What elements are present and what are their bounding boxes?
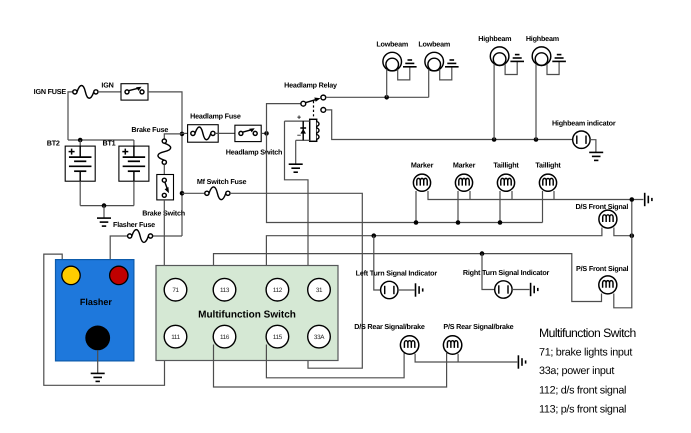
junction front signal riser / ground bus [630, 197, 635, 202]
switch Headlamp Switch [235, 125, 261, 141]
wire relay coil plus feed [285, 120, 310, 122]
wire headlamp switch node up to relay common [267, 104, 301, 134]
label Headlamp Fuse [190, 112, 241, 121]
lamp Marker at x=422 [413, 174, 430, 191]
svg-text:112; d/s front signal: 112; d/s front signal [539, 384, 626, 396]
wire brake fuse to brake switch [163, 164, 165, 174]
wire MF pin 116 to P/S rear signal [214, 345, 447, 388]
battery BT2 [65, 146, 95, 182]
label Right Turn Signal Indicator [463, 268, 550, 277]
label D/S Rear Signal/brake [354, 322, 425, 331]
fuse Headlamp Fuse [191, 127, 215, 140]
MF switch pin 33A [308, 325, 331, 348]
svg-text:113: 113 [220, 287, 230, 294]
wire brake fuse tap [164, 134, 182, 139]
wire rear signal ground bus [415, 354, 517, 362]
svg-text:71: 71 [172, 287, 179, 294]
legend text: 113; p/s front signal [539, 404, 626, 416]
svg-text:Highbeam indicator: Highbeam indicator [552, 118, 616, 127]
flasher module body [56, 260, 134, 361]
svg-text:112: 112 [273, 287, 283, 294]
svg-text:+: + [297, 115, 301, 122]
junction BT2 positive tap [78, 138, 83, 143]
label Taillight [535, 161, 561, 170]
lamp Highbeam 1 [490, 47, 517, 140]
legend text: Multifunction Switch [539, 326, 636, 340]
lamp Lowbeam 1 [383, 52, 410, 97]
wire MF pin 112 to D/S front signal [266, 228, 602, 282]
wire left turn indicator feed [374, 236, 381, 290]
label Flasher Fuse [113, 220, 155, 229]
svg-text:Taillight: Taillight [535, 161, 561, 170]
wire lamp left lead x=464 [457, 191, 459, 223]
wire headlamp switch node down to taillight bus [267, 133, 543, 222]
junction highbeam 2 tap [534, 137, 539, 142]
wire highbeam indicator to ground [590, 140, 596, 153]
wire flasher fuse to flasher red terminal [110, 236, 127, 266]
ground battery [97, 218, 111, 226]
svg-text:71; brake lights input: 71; brake lights input [539, 347, 632, 359]
ground relay coil [289, 164, 303, 172]
lamp D/S Front Signal [599, 210, 617, 228]
svg-text:−: − [297, 132, 301, 139]
wire BT2 negative lead [79, 181, 81, 205]
svg-text:IGN: IGN [101, 80, 113, 89]
box Headlamp Fuse [188, 125, 219, 143]
label BT1 [103, 139, 116, 148]
wire marker/taillight ground bus [428, 191, 643, 200]
svg-text:Headlamp Relay: Headlamp Relay [284, 80, 337, 89]
wire BT1 positive lead [133, 140, 135, 146]
lamp Left Turn Signal Indicator [381, 281, 398, 298]
switch IGN [121, 84, 148, 100]
label Lowbeam 1 [376, 40, 408, 49]
fuse Flasher Fuse [128, 230, 153, 243]
label Flasher [80, 297, 113, 307]
svg-text:Headlamp Switch: Headlamp Switch [226, 147, 283, 156]
junction taillight feed x=506 [498, 220, 503, 225]
svg-text:Mf Switch Fuse: Mf Switch Fuse [197, 177, 247, 186]
wire battery negative bus [80, 205, 134, 207]
wire lamp left lead x=506 [499, 191, 501, 223]
label Headlamp Relay [284, 80, 337, 89]
junction taillight feed x=464 [456, 220, 461, 225]
svg-text:IGN FUSE: IGN FUSE [34, 87, 67, 96]
lamp Lowbeam 2 ground [445, 60, 459, 67]
wire relay actuation dashed link [313, 101, 315, 119]
svg-text:Marker: Marker [453, 161, 476, 170]
svg-text:Lowbeam: Lowbeam [418, 40, 450, 49]
svg-text:BT2: BT2 [47, 139, 60, 148]
svg-text:Right Turn Signal Indicator: Right Turn Signal Indicator [463, 268, 550, 277]
wire MF pin 113 to P/S front signal [214, 254, 602, 302]
lamp Taillight at x=548 [539, 174, 556, 191]
ground rear signal bus [518, 355, 525, 368]
MF switch pin 115 [266, 325, 289, 348]
wire headlamp switch output [261, 132, 266, 134]
svg-text:Brake Fuse: Brake Fuse [131, 125, 168, 134]
ground flasher [91, 373, 105, 381]
wire lowbeam bus from relay top contact [326, 96, 429, 98]
junction left turn indicator tap [372, 233, 377, 238]
fuse IGN FUSE [73, 86, 98, 99]
label relay plus [297, 115, 301, 122]
label Brake Fuse [131, 125, 168, 134]
wire front signal ground riser [614, 200, 632, 308]
label Marker [411, 161, 434, 170]
wire BT1 negative lead [133, 181, 135, 205]
battery BT1 [119, 146, 149, 182]
junction power rail / brake fuse tap [180, 132, 185, 137]
svg-text:Marker: Marker [411, 161, 434, 170]
svg-text:31: 31 [316, 287, 323, 294]
wire flasher ground lead [97, 350, 99, 373]
lamp Highbeam 1 ground [510, 55, 524, 62]
ground marker/taillight bus [645, 193, 652, 206]
lamp Marker at x=464 [455, 174, 472, 191]
junction battery negative / ground tap [102, 203, 107, 208]
wire D/S front right lead to ground riser [614, 228, 632, 236]
label Headlamp Switch [226, 147, 283, 156]
junction taillight feed x=422 [414, 220, 419, 225]
wire lamp right lead x=506 [511, 191, 513, 200]
svg-text:Left Turn Signal Indicator: Left Turn Signal Indicator [356, 269, 438, 278]
svg-text:Taillight: Taillight [493, 161, 519, 170]
wire left turn indicator to ground [398, 289, 415, 291]
svg-text:33a; power input: 33a; power input [539, 365, 614, 377]
lamp Lowbeam 1 ground [403, 60, 417, 67]
svg-text:Flasher: Flasher [80, 297, 113, 307]
label Highbeam 1 [478, 34, 511, 43]
svg-text:Headlamp Fuse: Headlamp Fuse [190, 112, 241, 121]
label IGN [101, 80, 113, 89]
fuse Mf Switch Fuse [205, 187, 230, 200]
wire flasher yellow terminal loop to MF pin 111 [44, 254, 165, 385]
lamp Highbeam 2 ground [552, 55, 566, 62]
svg-text:116: 116 [220, 334, 230, 341]
wire right turn indicator to ground [512, 289, 529, 291]
lamp P/S Rear Signal/brake [443, 336, 461, 354]
ground highbeam indicator [589, 152, 603, 160]
ground right turn indicator [531, 283, 538, 296]
legend text: 112; d/s front signal [539, 384, 626, 396]
wire BT2 positive lead [79, 140, 81, 146]
wire headlamp fuse to headlamp switch [215, 132, 235, 134]
junction headlamp switch output node [264, 131, 269, 136]
svg-text:Flasher Fuse: Flasher Fuse [113, 220, 155, 229]
junction lowbeam 1 tap [384, 95, 389, 100]
junction front signal ground node [630, 233, 635, 238]
label Highbeam 2 [526, 34, 559, 43]
label Lowbeam 2 [418, 40, 450, 49]
wire relay plus to MF pin 31 [285, 121, 309, 281]
wire IGN fuse to IGN switch [98, 91, 121, 93]
lamp Lowbeam 2 [425, 52, 452, 97]
lamp Taillight at x=506 [497, 174, 514, 191]
switch Brake Switch [157, 175, 174, 200]
svg-text:BT1: BT1 [103, 139, 116, 148]
junction right turn indicator tap [480, 251, 485, 256]
lamp Right Turn Signal Indicator [495, 281, 512, 298]
svg-text:Highbeam: Highbeam [478, 34, 511, 43]
wire relay coil bottom [296, 139, 310, 141]
wire power rail to mf switch fuse [182, 192, 205, 194]
legend text: 71; brake lights input [539, 347, 632, 359]
wire IGN fuse left lead to left rail [68, 92, 73, 140]
wire taillight 2 left lead (bus end) [542, 191, 544, 223]
label P/S Rear Signal/brake [443, 322, 513, 331]
wire mf switch fuse to MF pin 33A [230, 193, 362, 368]
lamp D/S Rear Signal/brake [400, 336, 418, 354]
wire lamp right lead x=548 [553, 191, 555, 200]
wire P/S rear right lead [457, 354, 459, 362]
wire highbeam bus from relay NO contact [326, 110, 573, 140]
fuse Brake Fuse [158, 139, 171, 164]
svg-text:Multifunction Switch: Multifunction Switch [198, 310, 296, 321]
flasher yellow lamp terminal [62, 266, 80, 284]
svg-text:Brake Switch: Brake Switch [142, 208, 185, 217]
label Multifunction Switch (box) [198, 310, 296, 321]
flasher red lamp terminal [110, 266, 128, 284]
relay U1 coil [310, 119, 319, 141]
flasher ground terminal [85, 326, 110, 351]
label BT2 [47, 139, 60, 148]
svg-text:P/S Front Signal: P/S Front Signal [576, 264, 629, 273]
wire brake switch to MF pin 71 [163, 200, 165, 281]
MF switch pin 71 [164, 278, 187, 301]
junction power rail / mf switch fuse tap [180, 191, 185, 196]
label D/S Front Signal [575, 202, 628, 211]
wire battery ground lead [103, 206, 105, 219]
svg-text:D/S Front Signal: D/S Front Signal [575, 202, 628, 211]
label Left Turn Signal Indicator [356, 269, 438, 278]
wire flasher fuse to power rail [153, 235, 182, 237]
MF switch pin 31 [308, 278, 331, 301]
label relay minus [297, 132, 301, 139]
label Highbeam indicator [552, 118, 616, 127]
wire right turn indicator feed [482, 254, 495, 290]
label Marker [453, 161, 476, 170]
wire IGN switch to power rail corner [148, 92, 182, 236]
label P/S Front Signal [576, 264, 629, 273]
label Brake Switch [142, 208, 185, 217]
legend text: 33a; power input [539, 365, 614, 377]
svg-text:Highbeam: Highbeam [526, 34, 559, 43]
multifunction switch body [156, 266, 338, 361]
wire relay ground lead [295, 140, 297, 164]
lamp Highbeam 2 [532, 47, 559, 140]
ground left turn indicator [416, 283, 423, 296]
svg-text:D/S Rear Signal/brake: D/S Rear Signal/brake [354, 322, 425, 331]
label IGN FUSE [34, 87, 67, 96]
diode D1 across relay coil [300, 121, 306, 140]
svg-text:115: 115 [273, 334, 283, 341]
svg-text:Lowbeam: Lowbeam [376, 40, 408, 49]
relay U1 contacts (SPDT) [301, 95, 326, 112]
wire MF pin 115 to D/S rear signal [266, 345, 404, 378]
svg-text:P/S Rear Signal/brake: P/S Rear Signal/brake [443, 322, 513, 331]
junction highbeam 1 tap [492, 137, 497, 142]
MF switch pin 116 [213, 325, 236, 348]
wire lamp right lead x=464 [469, 191, 471, 200]
wire power rail to headlamp fuse box [182, 132, 188, 134]
MF switch pin 111 [164, 325, 187, 348]
svg-text:33A: 33A [314, 334, 325, 341]
lamp P/S Front Signal [599, 276, 617, 294]
wire battery top bus [68, 139, 134, 141]
label Taillight [493, 161, 519, 170]
svg-text:111: 111 [171, 334, 180, 341]
svg-text:Multifunction Switch: Multifunction Switch [539, 326, 636, 340]
wire lamp left lead x=422 [415, 191, 417, 223]
label Mf Switch Fuse [197, 177, 247, 186]
MF switch pin 112 [266, 278, 289, 301]
lamp Highbeam indicator [573, 131, 590, 148]
MF switch pin 113 [213, 278, 236, 301]
svg-text:113; p/s front signal: 113; p/s front signal [539, 404, 626, 416]
